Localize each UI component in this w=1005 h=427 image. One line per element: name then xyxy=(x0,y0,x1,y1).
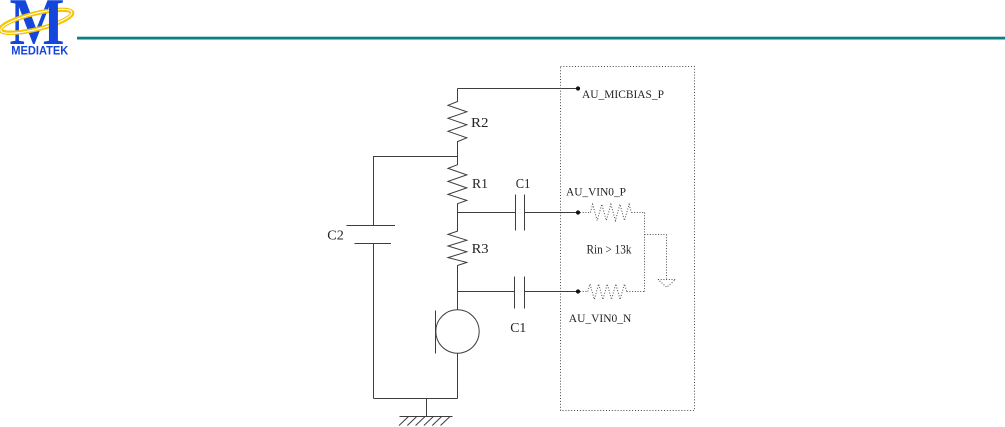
svg-text:R3: R3 xyxy=(472,242,489,257)
svg-text:AU_MICBIAS_P: AU_MICBIAS_P xyxy=(582,87,664,101)
svg-text:C2: C2 xyxy=(327,229,344,244)
svg-text:C1: C1 xyxy=(510,321,526,336)
svg-text:MEDIATEK: MEDIATEK xyxy=(11,44,68,58)
svg-text:Rin > 13k: Rin > 13k xyxy=(587,243,633,257)
svg-text:AU_VIN0_N: AU_VIN0_N xyxy=(569,311,632,325)
svg-text:R1: R1 xyxy=(472,177,488,192)
svg-text:AU_VIN0_P: AU_VIN0_P xyxy=(566,184,626,198)
svg-text:C1: C1 xyxy=(516,177,531,192)
svg-text:R2: R2 xyxy=(471,116,489,131)
